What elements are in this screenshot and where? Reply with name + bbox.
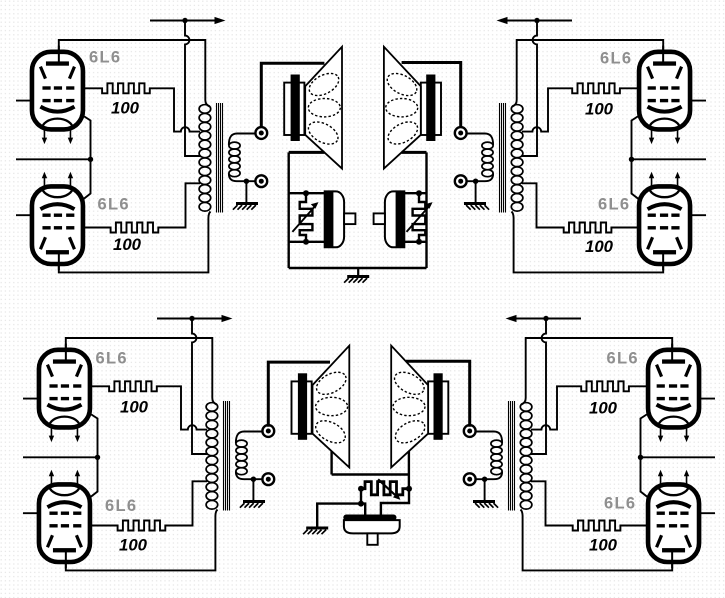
rheostat VR2	[413, 193, 426, 242]
svg-text:100: 100	[589, 399, 618, 418]
amplifier stage top-left	[16, 17, 267, 273]
compression driver DR1 throat	[344, 213, 355, 224]
svg-text:6L6: 6L6	[98, 196, 130, 214]
wire left output to horn (bottom)	[268, 362, 330, 427]
wire right loop edge	[425, 152, 427, 268]
wire ground stem	[357, 268, 359, 276]
amplifier stage bottom-right (mirrored)	[464, 315, 715, 571]
wire under horn LS1	[289, 151, 325, 154]
svg-text:6L6: 6L6	[96, 350, 128, 368]
compression driver DR1 body	[325, 191, 344, 247]
node rheostat left	[358, 486, 364, 492]
node driver junction	[358, 501, 364, 507]
wire rheostat left drop	[360, 489, 362, 504]
svg-text:100: 100	[120, 398, 149, 417]
wire driver lead left	[361, 504, 365, 515]
ground center top	[347, 275, 369, 278]
compression driver DR2 magnet	[396, 191, 405, 247]
wire left loop edge	[288, 152, 290, 268]
wire under horn LS2	[402, 151, 427, 154]
driver DR3 cap	[343, 515, 396, 521]
wire horn LS3 drop	[330, 451, 332, 474]
node L-pad bottom right	[416, 239, 422, 245]
horn speaker LS3	[292, 346, 350, 468]
svg-text:100: 100	[113, 235, 142, 254]
svg-text:6L6: 6L6	[604, 495, 636, 513]
ground center bottom	[306, 527, 328, 530]
node L-pad top right	[416, 190, 422, 196]
wire right output to horn (bottom)	[406, 361, 470, 427]
wire driver lead right	[381, 489, 409, 515]
amplifier stage bottom-left	[23, 315, 274, 571]
svg-text:6L6: 6L6	[600, 50, 632, 68]
arrow of VR2	[407, 206, 430, 232]
wire left output to horn	[261, 63, 324, 127]
horn speaker LS1	[284, 47, 342, 169]
wire L-pad bottom	[289, 241, 326, 243]
wire horn bottom bus	[332, 473, 409, 475]
compression driver DR2 throat	[374, 213, 385, 224]
wire bottom bus of top center loop	[289, 267, 427, 269]
compression driver DR1 magnet	[325, 191, 334, 247]
svg-text:6L6: 6L6	[105, 497, 137, 515]
horn speaker LS2	[384, 47, 441, 169]
node rheostat right	[406, 486, 412, 492]
horn speaker LS4	[391, 346, 448, 468]
amplifier stage top-right (mirrored)	[455, 17, 706, 273]
wire right output to horn	[402, 63, 461, 128]
compression driver DR2 body	[385, 191, 404, 247]
svg-text:100: 100	[585, 100, 614, 119]
wire L-pad bottom right	[404, 241, 427, 243]
wire L-pad top right	[404, 192, 427, 194]
driver DR3 stem	[367, 533, 377, 544]
node L-pad top	[303, 190, 309, 196]
svg-text:6L6: 6L6	[607, 350, 639, 368]
svg-text:100: 100	[119, 536, 148, 555]
svg-text:100: 100	[111, 99, 140, 118]
arrow of VR3	[378, 479, 397, 497]
wire to ground bottom center	[317, 504, 361, 527]
rheostat VR1	[300, 193, 313, 242]
svg-text:6L6: 6L6	[598, 196, 630, 214]
svg-text:6L6: 6L6	[89, 49, 121, 67]
svg-text:100: 100	[585, 237, 614, 256]
wire to rheostat right	[408, 475, 410, 489]
driver DR3 body	[344, 520, 400, 533]
wire horn LS4 drop	[408, 451, 410, 474]
node L-pad bottom	[303, 239, 309, 245]
svg-text:100: 100	[589, 536, 618, 555]
arrow of VR1	[292, 206, 315, 232]
wire L-pad top	[289, 192, 326, 194]
rheostat VR3	[361, 482, 409, 495]
